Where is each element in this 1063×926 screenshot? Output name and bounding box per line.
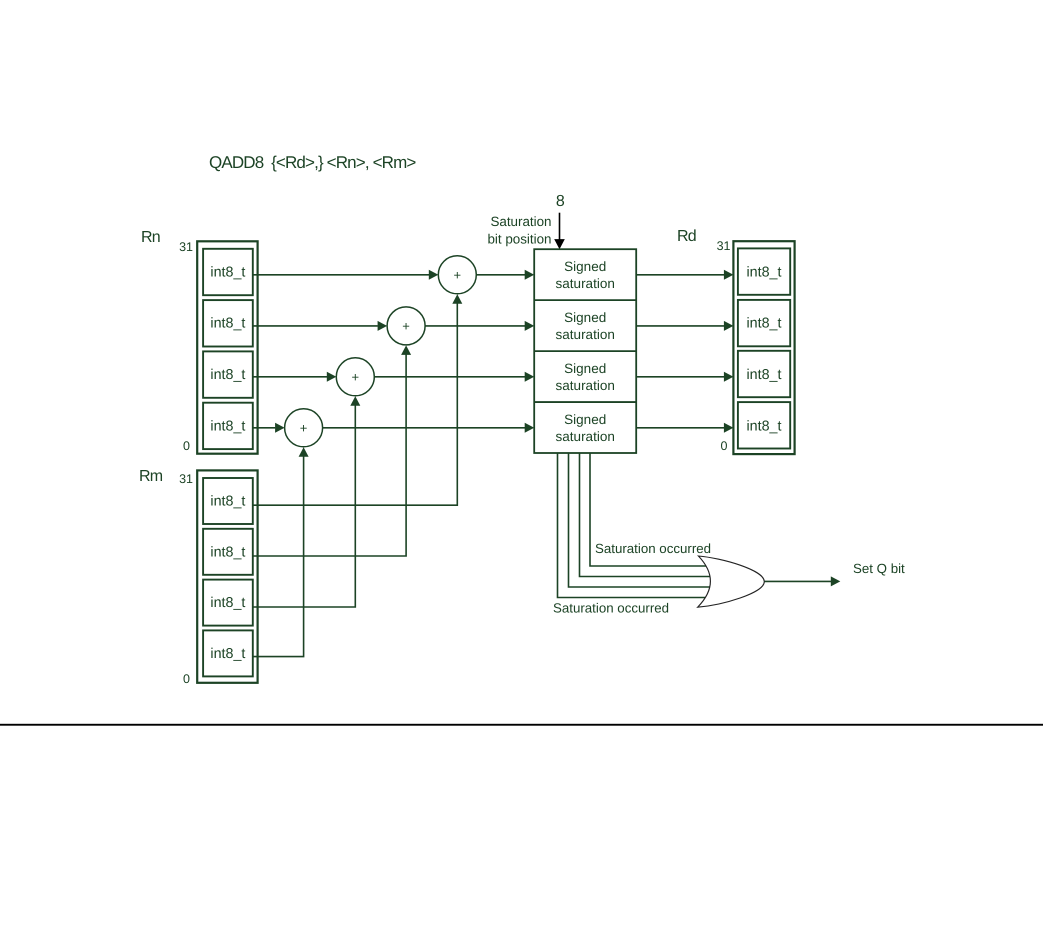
- svg-text:Set Q bit: Set Q bit: [853, 561, 905, 576]
- svg-text:Signed: Signed: [564, 412, 606, 427]
- register Rn byte 2 box int8_t: [203, 300, 253, 346]
- svg-text:saturation: saturation: [556, 327, 615, 342]
- wire adder A1 to saturation row1: [476, 274, 525, 276]
- register Rd outer box: [733, 241, 794, 454]
- wire saturation row3 to Rd byte1: [636, 376, 724, 378]
- register Rn byte 1 box int8_t: [203, 351, 253, 397]
- svg-text:+: +: [454, 267, 462, 282]
- wire adder A2 to saturation row2: [425, 325, 525, 327]
- footer rule: [0, 724, 1043, 726]
- wire saturation row4 to Rd byte0: [636, 427, 724, 429]
- svg-text:int8_t: int8_t: [210, 418, 245, 434]
- register Rd byte 3 box int8_t: [738, 248, 790, 294]
- svg-text:31: 31: [179, 240, 193, 254]
- svg-text:int8_t: int8_t: [210, 367, 245, 383]
- svg-text:bit position: bit position: [487, 232, 551, 247]
- wire saturation flag row2 to OR gate input 3: [569, 453, 712, 587]
- svg-text:+: +: [352, 369, 360, 384]
- svg-text:8: 8: [556, 193, 565, 210]
- svg-text:31: 31: [717, 239, 731, 253]
- svg-text:int8_t: int8_t: [747, 367, 782, 383]
- svg-text:Signed: Signed: [564, 361, 606, 376]
- or-gate U1: [698, 556, 765, 607]
- svg-text:+: +: [402, 318, 410, 333]
- register Rn byte 3 box int8_t: [203, 249, 253, 295]
- wire adder A4 to saturation row4: [323, 427, 525, 429]
- adder A2: [387, 307, 425, 345]
- svg-text:QADD8 {<Rd>,} <Rn>, <Rm>: QADD8 {<Rd>,} <Rn>, <Rm>: [209, 153, 416, 172]
- svg-text:Rm: Rm: [139, 468, 163, 485]
- wire Rm byte2 to adder A2: [253, 354, 406, 556]
- register Rn outer box: [197, 241, 257, 453]
- svg-text:31: 31: [179, 472, 193, 486]
- svg-text:Signed: Signed: [564, 259, 606, 274]
- svg-text:0: 0: [183, 672, 190, 686]
- register Rd byte 0 box int8_t: [738, 402, 790, 448]
- svg-text:int8_t: int8_t: [210, 494, 245, 510]
- svg-text:0: 0: [183, 439, 190, 453]
- svg-text:+: +: [300, 420, 308, 435]
- svg-text:int8_t: int8_t: [747, 316, 782, 332]
- wire adder A3 to saturation row3: [374, 376, 525, 378]
- register Rd byte 2 box int8_t: [738, 300, 790, 346]
- adder A4: [285, 409, 323, 447]
- register Rm byte 3 box int8_t: [203, 478, 253, 524]
- wire Rn byte3 to adder A1: [253, 274, 429, 276]
- wire Rn byte0 to adder A4: [253, 427, 275, 429]
- svg-text:int8_t: int8_t: [210, 264, 245, 280]
- register Rm byte 0 box int8_t: [203, 630, 253, 676]
- svg-text:saturation: saturation: [556, 378, 615, 393]
- svg-text:int8_t: int8_t: [210, 316, 245, 332]
- adder A1: [438, 256, 476, 294]
- wire 8 into saturation block (black): [559, 213, 561, 240]
- wire saturation flag row4 to OR gate input 1: [590, 453, 708, 566]
- svg-text:Rn: Rn: [141, 229, 160, 246]
- svg-text:Rd: Rd: [677, 228, 696, 245]
- svg-text:int8_t: int8_t: [210, 646, 245, 662]
- svg-text:int8_t: int8_t: [747, 418, 782, 434]
- register Rm byte 2 box int8_t: [203, 529, 253, 575]
- register Rn byte 0 box int8_t: [203, 403, 253, 449]
- register Rm byte 1 box int8_t: [203, 580, 253, 626]
- wire Rm byte1 to adder A3: [253, 405, 355, 607]
- register Rd byte 1 box int8_t: [738, 351, 790, 397]
- block signed saturation stack: [534, 249, 636, 453]
- wire saturation flag row3 to OR gate input 2: [580, 453, 712, 577]
- wire saturation flag row1 to OR gate input 4: [558, 453, 709, 598]
- svg-text:Saturation occurred: Saturation occurred: [553, 601, 669, 616]
- svg-text:saturation: saturation: [556, 429, 615, 444]
- svg-text:0: 0: [721, 439, 728, 453]
- wire saturation row2 to Rd byte2: [636, 325, 724, 327]
- svg-text:int8_t: int8_t: [210, 595, 245, 611]
- svg-text:int8_t: int8_t: [747, 264, 782, 280]
- wire OR gate output Set Q bit: [765, 580, 832, 582]
- wire Rm byte0 to adder A4: [253, 456, 304, 657]
- adder A3: [336, 358, 374, 396]
- wire Rm byte3 to adder A1: [253, 303, 457, 505]
- wire Rn byte2 to adder A2: [253, 325, 378, 327]
- wire Rn byte1 to adder A3: [253, 376, 327, 378]
- wire saturation row1 to Rd byte3: [636, 274, 724, 276]
- svg-text:Saturation: Saturation: [490, 214, 551, 229]
- svg-text:int8_t: int8_t: [210, 544, 245, 560]
- svg-text:Saturation occurred: Saturation occurred: [595, 541, 711, 556]
- svg-text:saturation: saturation: [556, 276, 615, 291]
- svg-text:Signed: Signed: [564, 310, 606, 325]
- register Rm outer box: [197, 470, 257, 682]
